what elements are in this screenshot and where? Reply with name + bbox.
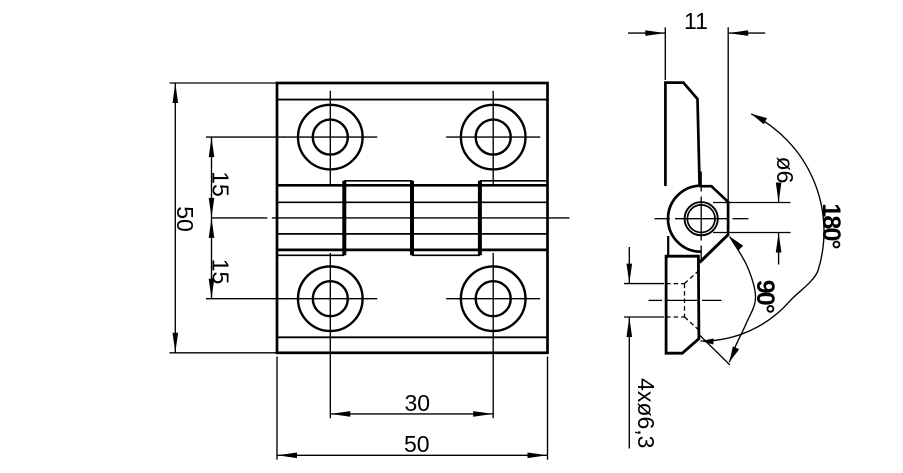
bottom-leaf knuckle top edge (right) (480, 180, 548, 182)
front view: hinge plate outline (277, 83, 548, 353)
dim 11: left extension line (664, 27, 666, 80)
mounting hole top-right: bore circle (476, 120, 511, 155)
hole bottom-left centerline / extension to 30 dim (329, 253, 331, 418)
180-degree swing arc (701, 114, 824, 341)
svg-text:ø6: ø6 (772, 157, 798, 184)
mounting hole top-right: counterbore circle (461, 105, 526, 170)
svg-text:90°: 90° (751, 280, 779, 313)
countersunk hole centerline right (702, 299, 722, 301)
90-deg arc lower arrowhead (729, 346, 739, 362)
side view: lower leaf profile (666, 256, 699, 353)
dim 15 lower: extension line at hole center (206, 298, 284, 300)
dim 50 bottom: right extension line (547, 357, 549, 460)
dimension 4xo6,3 (mounting holes) (624, 283, 664, 285)
countersunk hole upper hidden line (666, 283, 684, 285)
lower leaf corner step (666, 256, 668, 258)
knuckle joint line 2 (410, 181, 414, 256)
top-leaf knuckle bottom edge (left) (277, 254, 344, 256)
barrel vertical centerline lower (700, 246, 702, 263)
countersunk hole centerline left (649, 299, 663, 301)
dimension 11 (thickness) (628, 32, 665, 34)
dimension 50 (bottom width) (277, 454, 548, 456)
lower leaf upper-left corner edge behind barrel (667, 236, 669, 257)
dimension 30 (hole spacing) (330, 413, 493, 415)
closed-position reference line (700, 336, 730, 365)
countersink root hidden line (684, 284, 686, 317)
dim 50 bottom: left extension line (276, 357, 278, 460)
front view bottom chamfer line (277, 336, 548, 338)
barrel horizontal centerline right (733, 218, 749, 220)
svg-text:180°: 180° (817, 203, 845, 248)
svg-text:50: 50 (404, 431, 430, 457)
dimension 15 (lower) (211, 218, 213, 299)
mounting hole top-left: bore circle (313, 120, 348, 155)
hinge pin lower silhouette line (277, 233, 548, 235)
180-deg arc upper arrowhead (751, 114, 767, 124)
hole bottom-right horizontal centerline (446, 298, 540, 300)
hole top-right vertical centerline (492, 91, 494, 184)
svg-text:50: 50 (172, 206, 198, 232)
side view: knuckle top flat and chamfer (700, 186, 729, 235)
bottom-leaf knuckle top edge (center) (344, 180, 412, 182)
side view: knuckle arc (barrel) (668, 186, 701, 252)
hinge axis centerline (main) (272, 217, 570, 219)
countersunk hole centerline mid (667, 299, 697, 301)
knuckle joint line 1 (342, 181, 346, 256)
dim 50 left: top extension line (170, 82, 278, 84)
svg-text:4xø6,3: 4xø6,3 (633, 378, 659, 448)
knuckle 45-deg open-face chamfer (700, 234, 729, 262)
90-degree swing arc (729, 237, 755, 363)
side view: upper leaf profile (665, 83, 699, 186)
barrel vertical centerline upper (700, 172, 702, 192)
top-leaf knuckle bottom edge (center-right) (412, 254, 480, 256)
barrel vertical centerline mid (700, 197, 702, 241)
dim 11: right extension line (727, 27, 729, 200)
svg-text:30: 30 (405, 390, 431, 416)
side view: pin hole outer circle (685, 202, 718, 235)
hole top-right horizontal centerline (446, 136, 540, 138)
countersink cone upper hidden line (685, 271, 699, 284)
mounting hole bottom-left: bore circle (313, 281, 348, 316)
180-deg arc lower arrowhead (701, 339, 714, 345)
mounting hole bottom-right: bore circle (476, 281, 511, 316)
bottom leaf upper edge (277, 249, 548, 252)
hole bottom-right centerline / extension to 30 dim (492, 253, 494, 418)
hole top-left vertical centerline (329, 91, 331, 184)
mounting hole bottom-right: counterbore circle (461, 266, 526, 331)
countersunk hole lower hidden line (666, 316, 684, 318)
dim 50 left: bottom extension line (170, 352, 278, 354)
front view top chamfer line (277, 99, 548, 101)
dim 15 upper: extension line at hole center (206, 136, 284, 138)
dimension 50 (left height) (174, 83, 176, 353)
hinge axis centerline (left part) (212, 217, 268, 219)
hole bottom-left horizontal centerline (283, 298, 377, 300)
mounting hole bottom-left: counterbore circle (298, 266, 363, 331)
90-deg arc upper arrowhead (730, 237, 744, 251)
svg-text:15: 15 (207, 171, 233, 197)
hole top-left horizontal centerline (283, 136, 377, 138)
svg-text:11: 11 (684, 8, 708, 34)
countersink cone lower hidden line (685, 317, 699, 330)
barrel horizontal centerline mid (675, 218, 727, 220)
barrel horizontal centerline left (655, 218, 671, 220)
side view: pin hole inner circle (687, 205, 715, 233)
svg-text:15: 15 (207, 259, 233, 285)
knuckle joint line 3 (478, 181, 482, 256)
top leaf lower edge (277, 184, 548, 187)
dimension 15 (upper) (211, 137, 213, 218)
hinge pin upper silhouette line (277, 201, 548, 203)
dimension o6 (pin hole) (713, 202, 791, 204)
mounting hole top-left: counterbore circle (298, 105, 363, 170)
